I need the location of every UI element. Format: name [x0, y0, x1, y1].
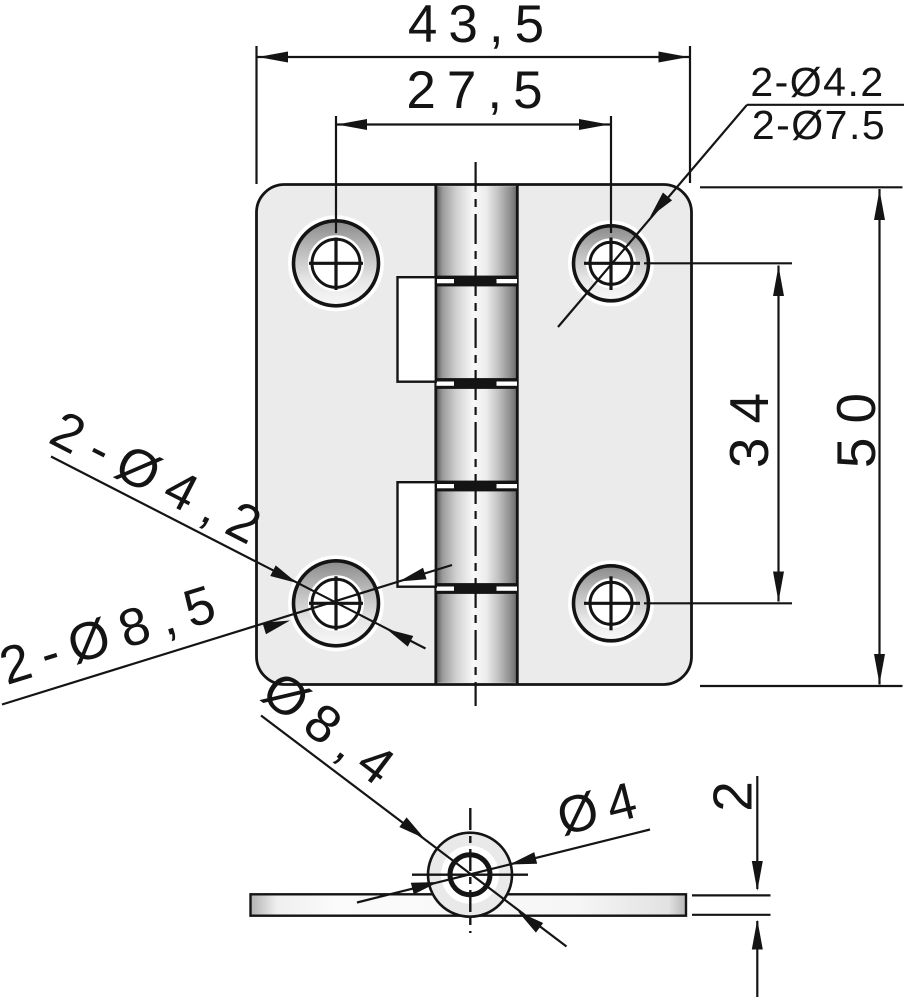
leaf cutout notch 2: [398, 482, 436, 587]
label 2-Ø4,2 arrow upper: [270, 565, 300, 588]
hole bottom-left (counterbored): [288, 555, 384, 651]
hinge plate body (front view): [257, 185, 692, 685]
dimension 34 line: [777, 266, 779, 602]
svg-text:27,5: 27,5: [406, 61, 553, 120]
label Ø4 leader line: [357, 830, 650, 903]
dimension 2 arrow down: [752, 861, 763, 891]
barrel dashed centerline: [475, 162, 477, 706]
label Ø8,4 arrow upper: [399, 817, 428, 843]
svg-text:Ø4: Ø4: [551, 769, 652, 847]
barrel right edge: [516, 185, 519, 685]
dimension 2 line upper segment: [756, 776, 758, 889]
dimension 43,5 arrow right: [659, 52, 689, 63]
dimension 27,5 arrow right: [579, 119, 609, 130]
dimension 34 arrow top: [773, 266, 784, 296]
svg-text:50: 50: [825, 379, 887, 468]
svg-text:2-Ø4.2: 2-Ø4.2: [750, 59, 884, 105]
leader line to top-right hole: [558, 105, 747, 327]
leader arrow at top-right hole: [645, 193, 672, 221]
dimension 50 arrow bottom: [874, 654, 885, 684]
knuckle joint 1: [435, 276, 518, 287]
dimension 2 line lower segment: [756, 921, 758, 997]
svg-text:43,5: 43,5: [408, 0, 555, 54]
label 2-Ø4,2 leader line (bottom-left hole): [51, 457, 426, 649]
label Ø8,4 arrow lower: [514, 907, 543, 933]
label 2-Ø8,5 arrow left: [262, 615, 291, 634]
svg-text:2: 2: [702, 781, 764, 812]
label underline (top right): [747, 104, 904, 106]
dimension 43,5 arrow left: [258, 52, 288, 63]
dimension 43,5 line: [257, 56, 691, 58]
dimension 43,5 extension line left: [255, 46, 257, 184]
svg-text:34: 34: [718, 379, 780, 468]
hinge barrel (pin knuckle column): [437, 186, 516, 683]
dimension 27,5 line: [336, 123, 611, 125]
dimension 2 extension line bottom: [692, 914, 771, 916]
hole top-left (counterbored): [288, 116, 384, 311]
svg-text:2-Ø7.5: 2-Ø7.5: [752, 102, 886, 148]
dimension 2 arrow up: [752, 920, 763, 950]
knuckle joint 4: [435, 583, 518, 594]
bottom view barrel circle: [412, 808, 528, 933]
label 2-Ø8,5 leader line (bottom-left hole): [2, 565, 452, 705]
dimension 2 extension line top: [692, 894, 771, 896]
dimension 34 arrow bottom: [773, 572, 784, 602]
label Ø8,4 leader line: [261, 716, 567, 947]
barrel left edge: [434, 185, 437, 685]
label Ø4 arrow upper: [508, 852, 537, 870]
dimension 50 extension line bottom: [700, 685, 903, 687]
knuckle joint 3: [435, 481, 518, 492]
label 2-Ø8,5 arrow right: [397, 568, 426, 587]
bottom view plate bar: [251, 894, 687, 915]
svg-text:2-Ø8,5: 2-Ø8,5: [0, 571, 234, 697]
dimension 27,5 arrow left: [337, 119, 367, 130]
dimension 43,5 extension line right: [689, 46, 691, 183]
dimension 50 extension line top: [700, 186, 903, 188]
knuckle joint 2: [435, 378, 518, 389]
label 2-Ø4,2 arrow lower: [384, 624, 414, 647]
hole top-right (counterbored): [568, 116, 792, 306]
dimension 50 arrow top: [874, 190, 885, 220]
label Ø4 arrow lower: [411, 876, 440, 894]
hole bottom-right (counterbored): [568, 560, 792, 646]
dimension 50 line: [878, 189, 880, 685]
svg-text:2-Ø4,2: 2-Ø4,2: [41, 400, 282, 562]
leaf cutout notch 1: [398, 277, 436, 382]
